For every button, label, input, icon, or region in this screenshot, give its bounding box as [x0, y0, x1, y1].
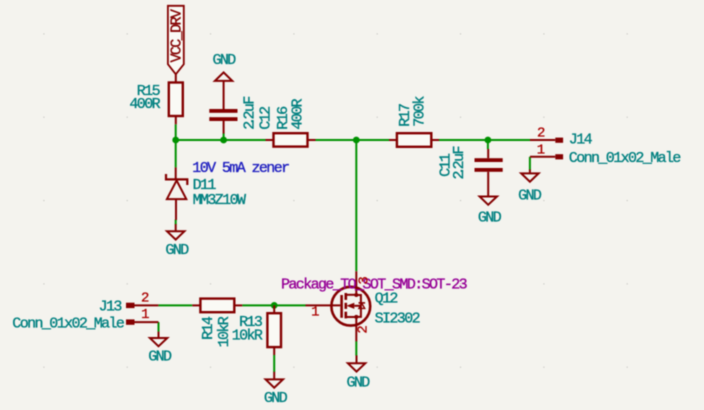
R17 value 700k: [412, 96, 429, 127]
wire: Q12 source to ground: [355, 341, 357, 355]
transistor Q12 (N-channel MOSFET SI2302): [306, 271, 371, 341]
wire: R13 bottom to ground: [273, 355, 275, 372]
Q12 pin number 3 (drain): [356, 276, 372, 284]
Q12 footprint label Package_TO_SOT_SMD:SOT-23: [281, 277, 468, 294]
R13 value 10kR: [232, 328, 263, 345]
D11 value MM3Z10W: [193, 192, 246, 209]
junction: node at C12: [220, 137, 227, 144]
ground below J14 pin 1: [518, 170, 542, 205]
svg-text:C12: C12: [257, 107, 274, 130]
R15 reference label: [137, 83, 161, 100]
svg-text:GND: GND: [518, 188, 542, 205]
resistor R17: [389, 133, 439, 147]
C11 value 2.2uF: [451, 146, 468, 179]
ground below R13: [264, 372, 288, 407]
wire: main net down to C12: [223, 133, 225, 140]
svg-text:3: 3: [356, 276, 372, 284]
svg-text:1: 1: [537, 142, 545, 158]
resistor R13: [267, 305, 281, 355]
wire: main net down to C11: [487, 140, 489, 149]
J13 pin number 1: [141, 307, 149, 323]
D11 note: 10V 5mA zener: [192, 160, 289, 177]
J13 value Conn_01x02_Male: [12, 316, 125, 333]
wire: J13 pin 2 to R14: [158, 304, 192, 306]
svg-text:J14: J14: [569, 132, 593, 149]
svg-text:10V 5mA zener: 10V 5mA zener: [192, 160, 289, 177]
svg-text:GND: GND: [346, 374, 370, 391]
R17 reference label: [397, 104, 414, 127]
wire: main net from R15 to R16: [176, 139, 266, 141]
wire: main net down to Q12 drain: [355, 140, 357, 271]
svg-text:400R: 400R: [289, 98, 306, 129]
ground below J13 pin 1: [148, 332, 172, 366]
wire: main net from R16 to R17: [316, 139, 390, 141]
wire: main net down to D11 cathode: [175, 140, 177, 167]
svg-text:GND: GND: [264, 390, 288, 407]
resistor R15: [169, 74, 183, 124]
junction: node at R13 / Q12 gate: [271, 302, 278, 309]
R16 reference label: [275, 106, 292, 130]
svg-text:10kR: 10kR: [216, 316, 233, 347]
wire: R14 to Q12 gate node: [242, 304, 305, 306]
svg-text:2: 2: [141, 290, 149, 306]
C12 reference label: [257, 107, 274, 130]
svg-text:400R: 400R: [129, 96, 160, 113]
svg-text:GND: GND: [478, 209, 502, 226]
ground below D11: [165, 224, 189, 259]
junction: node at C11 / J14: [485, 137, 492, 144]
svg-text:2.2uF: 2.2uF: [451, 146, 468, 179]
wire: R15 bottom to main net: [175, 124, 177, 140]
ground above C12: [212, 52, 236, 110]
ground below C11: [478, 172, 502, 227]
svg-text:Conn_01x02_Male: Conn_01x02_Male: [569, 150, 682, 167]
svg-text:10kR: 10kR: [232, 328, 263, 345]
svg-text:2: 2: [537, 126, 545, 142]
ground below Q12 source: [346, 355, 370, 391]
junction: node at R15 / D11: [172, 137, 179, 144]
wire: J14 pin 1 elbow to ground: [529, 157, 531, 170]
svg-text:2: 2: [356, 325, 372, 333]
svg-text:R14: R14: [200, 316, 217, 340]
svg-text:VCC_DRV: VCC_DRV: [168, 9, 185, 62]
J14 pin number 1: [537, 142, 545, 158]
resistor R16: [266, 133, 316, 146]
J13 pin number 2: [141, 290, 149, 306]
capacitor C11: [475, 149, 503, 172]
svg-text:Conn_01x02_Male: Conn_01x02_Male: [12, 316, 125, 333]
J13 reference label: [99, 299, 123, 316]
zener diode D11: [166, 167, 187, 220]
R15 value 400R: [129, 96, 160, 113]
R13 reference label: [239, 314, 263, 331]
wire: D11 anode to ground: [175, 220, 177, 225]
svg-text:2.2uF: 2.2uF: [242, 97, 259, 130]
wire: J13 pin 1 elbow to ground: [158, 322, 160, 332]
R14 reference label: [200, 316, 217, 340]
svg-text:700k: 700k: [412, 96, 429, 127]
svg-text:GND: GND: [148, 349, 172, 366]
svg-text:J13: J13: [99, 299, 123, 316]
power flag VCC_DRV: [168, 6, 185, 75]
Q12 value SI2302: [375, 311, 420, 328]
svg-text:SI2302: SI2302: [375, 311, 420, 328]
Q12 pin number 1 (gate): [311, 305, 319, 321]
Q12 reference label: [375, 291, 398, 308]
D11 reference label: [193, 177, 217, 194]
C11 reference label: [438, 153, 455, 177]
connector J14: [530, 138, 563, 160]
J14 value Conn_01x02_Male: [569, 150, 682, 167]
connector J13: [126, 303, 158, 325]
wire: main net from R17 to J14 pin 2: [439, 139, 530, 141]
J14 pin number 2: [537, 126, 545, 142]
svg-text:MM3Z10W: MM3Z10W: [193, 192, 246, 209]
svg-text:1: 1: [311, 305, 319, 321]
resistor R14: [192, 299, 242, 313]
J14 reference label: [569, 132, 593, 149]
Q12 pin number 2 (source): [356, 325, 372, 333]
R16 value 400R: [289, 98, 306, 129]
svg-text:GND: GND: [165, 242, 189, 259]
svg-text:Q12: Q12: [375, 291, 398, 308]
R14 value 10kR: [216, 316, 233, 347]
C12 value 2.2uF: [242, 97, 259, 130]
junction: node at Q12 drain: [353, 137, 360, 144]
capacitor C12: [209, 109, 237, 134]
svg-text:GND: GND: [212, 52, 236, 69]
svg-text:1: 1: [141, 307, 149, 323]
